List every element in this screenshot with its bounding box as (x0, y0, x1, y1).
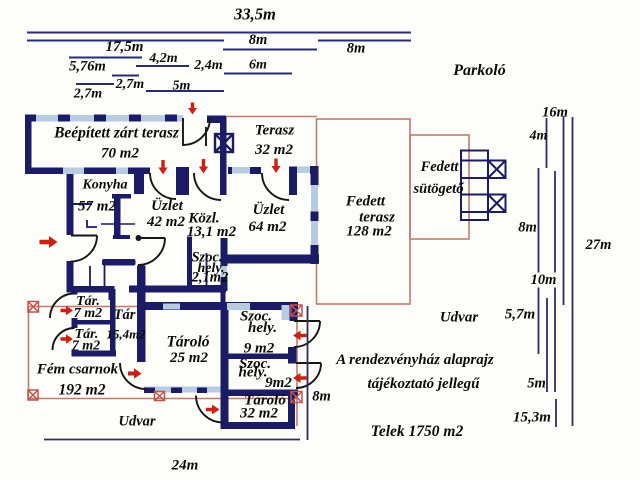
svg-text:17,5m: 17,5m (106, 39, 144, 55)
X box yard top-left (28, 302, 39, 313)
svg-text:128 m2: 128 m2 (346, 224, 392, 240)
svg-text:Beépített zárt terasz: Beépített zárt terasz (53, 125, 179, 142)
Tároló 32 bottom wall (221, 422, 295, 429)
Szoc.hely 2,1 right wall lower (221, 277, 228, 291)
svg-text:15,4m2: 15,4m2 (106, 327, 146, 342)
svg-text:Fedett: Fedett (345, 194, 386, 210)
svg-text:57 m2: 57 m2 (78, 199, 116, 215)
svg-text:6m: 6m (249, 58, 267, 73)
dim line 8m right (318, 40, 411, 42)
dim line 5,76m right (112, 75, 139, 77)
X box bottom middle (155, 392, 165, 401)
svg-text:Fém csarnok: Fém csarnok (36, 362, 119, 378)
chimney symbol (square with X) (215, 134, 233, 152)
svg-text:33,5m: 33,5m (233, 5, 276, 24)
top wall of Beépített zárt terasz (navy piers between windows) (25, 115, 36, 122)
svg-text:hely.: hely. (238, 365, 267, 381)
dim line second row left (27, 40, 224, 42)
door Szoc.hely 9m2 right: leaf + arc (294, 320, 320, 322)
arrow left at Szoc.hely 9m2 door (293, 331, 307, 341)
svg-text:hely.: hely. (248, 320, 277, 336)
svg-text:27m: 27m (585, 237, 612, 253)
dim line 4,2m (136, 65, 189, 67)
dim line 15,3m vertical (555, 399, 557, 427)
thin partition in Szoc.hely 2,1 (206, 253, 208, 288)
arrow down at Üzlet64 door (271, 159, 280, 174)
door Üzlet42 top wall arc (150, 173, 176, 199)
Fedett terasz red outline box (317, 119, 411, 304)
arrow right at Tároló32 door (206, 405, 220, 415)
door Fém csarnok arc (120, 363, 146, 389)
wall band y286 right part (129, 286, 226, 293)
Tároló 25 bottom wall dashes (144, 388, 155, 394)
svg-text:192 m2: 192 m2 (59, 382, 106, 399)
arrow right at Tár 7m2 lower (61, 334, 74, 344)
svg-text:5,7m: 5,7m (505, 307, 535, 323)
wall piece right of chimney (228, 167, 232, 174)
door Közl top wall arc (194, 173, 221, 200)
svg-text:tájékoztató jellegű: tájékoztató jellegű (367, 376, 480, 392)
svg-text:8m: 8m (518, 220, 537, 236)
svg-text:sütögető: sütögető (413, 181, 465, 197)
Tár rooms divider (78, 320, 111, 325)
X box yard bottom-left (28, 390, 38, 400)
Tár rooms bottom wall (72, 351, 117, 357)
svg-text:A rendezvényház alaprajz: A rendezvényház alaprajz (335, 352, 494, 368)
svg-text:2,7m: 2,7m (115, 77, 145, 92)
svg-text:16m: 16m (542, 105, 568, 121)
svg-text:5m: 5m (173, 79, 191, 94)
svg-text:Konyha: Konyha (81, 178, 127, 193)
Tár rooms: left wall segments (72, 288, 78, 295)
dim line 17,5m (69, 57, 142, 59)
svg-text:8m: 8m (249, 32, 268, 48)
property line (red) right vertical (296, 306, 298, 426)
svg-text:Parkoló: Parkoló (452, 62, 505, 79)
arrow down at zárt terasz door (188, 103, 197, 115)
svg-text:5m: 5m (527, 376, 546, 392)
door Tár 7m2 upper arc (50, 294, 75, 319)
svg-text:70 m2: 70 m2 (101, 146, 139, 162)
svg-text:64 m2: 64 m2 (249, 219, 287, 235)
Konyha short line through 57 (73, 203, 92, 205)
Konyha left wall lower (67, 261, 74, 292)
dim line 8m bottom vertical (307, 306, 309, 440)
lower-block right wall upper piece (290, 302, 298, 321)
Tár rooms right wall (110, 289, 116, 355)
svg-text:Udvar: Udvar (440, 310, 478, 326)
door jamb stub below wall (Konyha/Üzlet42) (134, 174, 144, 194)
dim line 16m vertical (563, 116, 565, 305)
arrow left at Szoc.hely 9m2 lower door (293, 373, 307, 383)
Tároló 32 top wall (226, 390, 299, 397)
svg-text:Udvar: Udvar (118, 414, 155, 430)
Konyha divider vertical (114, 198, 121, 239)
bottom wall of zárt terasz / top wall of shops: segments (25, 168, 63, 175)
arrow down at Üzlet42 door (158, 160, 167, 175)
svg-text:9 m2: 9 m2 (244, 341, 275, 357)
arrow down at Közl door (199, 159, 208, 174)
Konyha thin vertical fixture left (89, 266, 91, 287)
svg-text:13,1 m2: 13,1 m2 (187, 224, 237, 240)
arrow right at Konyha door (40, 236, 58, 248)
jamb right of Üzlet64 door (289, 167, 297, 196)
door zárt terasz top: leaf + arc (182, 118, 184, 146)
door Konyha left: leaf + arc (71, 235, 97, 237)
wall between Tároló25 and Szoc rooms (vertical) (221, 302, 229, 429)
Szoc.hely 2,1 connector stub down (221, 291, 226, 303)
svg-text:32 m2: 32 m2 (239, 406, 278, 422)
svg-text:15,3m: 15,3m (513, 410, 551, 426)
Konyha divider tick bottom (113, 235, 130, 239)
svg-text:2,1m2: 2,1m2 (191, 270, 229, 286)
Szoc.hely 2,1 left wall (187, 237, 192, 292)
X box right bottom (291, 392, 302, 403)
dim line 33,5m (27, 32, 411, 34)
door Tár 7m2 lower arc (53, 328, 75, 350)
top wall cap right of door (207, 116, 226, 124)
left outer wall (25, 115, 32, 175)
jamb stub below Konyha bottom wall (109, 292, 115, 300)
dim line 8m middle (223, 49, 317, 51)
svg-text:Tároló: Tároló (166, 334, 209, 351)
white patch under 10m (529, 273, 559, 288)
hinge dot of Üzlet42 interior door (136, 235, 142, 241)
property line (red) bottom horizontal (28, 398, 297, 400)
lower block top wall (144, 302, 298, 310)
svg-text:24m: 24m (171, 458, 199, 474)
svg-text:Terasz: Terasz (255, 123, 295, 139)
svg-text:32 m2: 32 m2 (254, 142, 293, 158)
Üzlet 64 right wall segments (311, 174, 319, 185)
Konyha left wall upper (67, 174, 74, 235)
door Üzlet42 interior: leaf + arc (138, 237, 165, 239)
divider between the two Szoc.hely rooms (228, 354, 291, 360)
Konyha counter line (101, 223, 135, 225)
svg-text:7 m2: 7 m2 (74, 306, 102, 321)
svg-text:Üzlet: Üzlet (151, 197, 183, 214)
dim line 4m vertical (546, 118, 548, 168)
Konyha thin vertical below bar (104, 265, 106, 287)
svg-text:Üzlet: Üzlet (253, 201, 285, 218)
svg-text:5,76m: 5,76m (69, 59, 106, 75)
property line (red) left vertical (28, 306, 30, 398)
window band top wall (light blue base) (25, 115, 183, 122)
arrow right at Fém csarnok door (128, 368, 142, 378)
Terasz red top edge (227, 116, 317, 118)
Fedett sütögető red outline box (410, 135, 469, 239)
dim line 27m vertical (572, 117, 574, 426)
dim line 5m (146, 90, 224, 92)
jamb between Üzlet42 and Közl doors (176, 167, 189, 195)
svg-text:Fedett: Fedett (420, 159, 460, 175)
window segments Üzlet 64 right wall (311, 185, 318, 212)
svg-text:Tár: Tár (114, 307, 136, 323)
Üzlet 64 bottom wall (221, 255, 320, 264)
sütögető (grill) symbol (461, 151, 506, 221)
svg-text:2,7m: 2,7m (73, 87, 103, 102)
Konyha small fixture L (87, 220, 97, 227)
Tároló 32 right wall (288, 396, 295, 429)
door Üzlet64 top wall arc (262, 173, 289, 200)
central vertical wall (Tároló 25 left) (137, 266, 146, 363)
svg-text:Telek 1750 m2: Telek 1750 m2 (371, 423, 464, 440)
window band bottom wall of zárt terasz (light blue segments) (63, 168, 84, 175)
dim line 24m bottom (44, 439, 300, 441)
dim line 8m/10m vertical (538, 168, 540, 354)
svg-text:4m: 4m (529, 129, 548, 144)
Konyha counter bar (102, 259, 136, 266)
svg-text:2,4m: 2,4m (193, 58, 223, 73)
door Szoc.hely 9m2 lower right: leaf + arc (296, 362, 321, 364)
X box right top (291, 305, 302, 316)
arrow right at Tár 7m2 upper (61, 306, 74, 316)
door Tároló 32 arc (196, 396, 223, 423)
Konyha divider tick top (112, 194, 131, 199)
dim line middle vertical (554, 171, 556, 392)
svg-text:4,2m: 4,2m (148, 51, 178, 66)
window in Szoc.hely 2,1 right wall (221, 266, 227, 277)
Szoc.hely 2,1 bottom wall (187, 285, 226, 292)
property line (red) horizontal top of Fém csarnok yard (28, 306, 297, 308)
dim line 6m (224, 73, 292, 75)
svg-text:42 m2: 42 m2 (146, 214, 185, 230)
svg-text:25 m2: 25 m2 (169, 350, 208, 366)
Konyha bottom wall / Tár top wall left part (67, 286, 115, 293)
top-right corner piece (310, 166, 319, 174)
window band Tároló 25 bottom wall (144, 387, 221, 393)
svg-text:8m: 8m (347, 41, 366, 57)
dim line 5,7m/5m vertical (546, 298, 548, 392)
Szoc.hely 2,1 right wall upper (221, 238, 228, 266)
second door leaf (double door) (205, 127, 207, 146)
chimney wall column (220, 116, 227, 195)
svg-text:10m: 10m (531, 272, 557, 288)
svg-text:8m: 8m (312, 389, 331, 405)
right wall piece between the two right doors (288, 347, 297, 364)
svg-text:9m2: 9m2 (265, 375, 292, 391)
dim line 2,7m upper (76, 83, 114, 85)
svg-text:7 m2: 7 m2 (72, 339, 100, 354)
window segments lower block top wall (over walls) (163, 304, 180, 310)
